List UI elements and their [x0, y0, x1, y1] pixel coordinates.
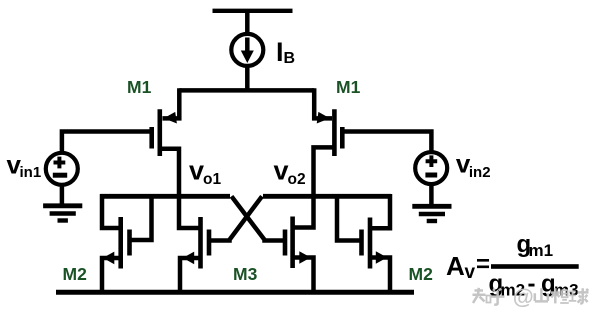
wire vo1 node down to M3 left drain [179, 195, 201, 228]
svg-text:M3: M3 [233, 264, 258, 284]
svg-text:in2: in2 [469, 164, 491, 181]
voltage source vin1 [46, 132, 152, 207]
transistor M1 left (PMOS) [152, 88, 180, 197]
transistor M2 right (NMOS diode-connected) [337, 194, 390, 292]
svg-text:A: A [446, 251, 465, 281]
label vin2 [456, 149, 491, 181]
svg-text:v: v [465, 262, 476, 283]
svg-text:M1: M1 [336, 77, 361, 97]
wire vo2 node down to M3 right drain [293, 195, 314, 228]
voltage source vin2 [342, 132, 447, 207]
svg-text:m1: m1 [529, 241, 554, 260]
transistor M1 right (PMOS) [314, 88, 343, 197]
ground below vin1 [43, 206, 82, 221]
ground rail [56, 290, 414, 295]
transistor M3 right (cross-coupled NMOS) [285, 217, 314, 293]
svg-text:B: B [284, 50, 296, 67]
cross-couple wire vo1 to M3 right gate [232, 196, 286, 240]
label vo1 [189, 156, 221, 188]
svg-text:in1: in1 [20, 164, 42, 181]
transistor M2 left (NMOS diode-connected) [102, 194, 152, 292]
svg-text:o2: o2 [288, 171, 306, 188]
wire tail rail (common sources of M1) [179, 88, 314, 93]
svg-text:@: @ [513, 285, 534, 309]
formula Av = gm1/(gm2-gm3) [446, 231, 579, 300]
svg-text:o1: o1 [203, 171, 221, 188]
ground below vin2 [412, 206, 451, 221]
wire top bar to current source [245, 11, 250, 34]
label IB [276, 37, 295, 67]
svg-text:I: I [276, 37, 284, 67]
cross-couple wire vo2 to M3 left gate [209, 196, 262, 240]
power rail top bar [213, 9, 293, 13]
svg-text:v: v [274, 156, 289, 186]
watermark zhihu @shanzhaqiu [473, 285, 589, 309]
node vo1 rail [100, 194, 230, 199]
current source IB [231, 34, 263, 66]
wire current source to tail rail [245, 66, 250, 92]
transistor M3 left (cross-coupled NMOS) [180, 217, 209, 292]
label vin1 [7, 149, 42, 181]
svg-text:M2: M2 [63, 264, 88, 284]
node vo2 rail [263, 194, 391, 199]
svg-text:v: v [189, 156, 204, 186]
label vo2 [274, 156, 306, 188]
svg-text:M2: M2 [409, 264, 434, 284]
svg-text:M1: M1 [127, 77, 152, 97]
